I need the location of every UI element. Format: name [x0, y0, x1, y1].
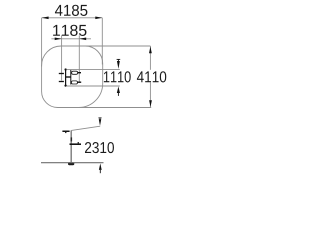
1110 top outside arrow [117, 59, 121, 69]
side view: handlebar grip [62, 131, 69, 133]
extension line right of 1185 [78, 35, 80, 83]
pole bolt detail [71, 137, 73, 141]
2310 top outside arrow [98, 118, 101, 126]
arrow left 1185 (outside, pointing right) [55, 38, 62, 41]
seat bracket vertical [70, 70, 72, 85]
label 4110 [137, 71, 166, 82]
footrest oval top [72, 71, 78, 74]
crossbar [66, 76, 71, 78]
arrow left 4185 [42, 17, 49, 20]
equipment plan view: handlebar post [59, 70, 81, 86]
arrow right 1185 (outside, pointing left) [79, 38, 86, 41]
sloping top line to dimension arrow [71, 126, 100, 130]
4110 bottom arrow [149, 100, 152, 107]
seat beam top [78, 72, 82, 74]
label 4185 [55, 5, 87, 16]
handlebar end dot top [64, 68, 66, 70]
dimension 4185 line [42, 18, 103, 67]
seat beam bottom [77, 81, 81, 83]
label 1110 [104, 71, 131, 82]
4110 dimension line (broken by text) [149, 46, 151, 70]
extension line right of 4185 [101, 18, 103, 65]
seat bar (side view) [70, 143, 82, 145]
handlebar end dot bottom [64, 84, 66, 86]
ground line [41, 162, 104, 164]
dimension 1185 line with outside arrows [51, 35, 91, 83]
4110 top arrow [149, 47, 152, 54]
extension line left of 1185 [61, 35, 63, 80]
base foot [68, 162, 74, 165]
label 2310 [85, 142, 114, 153]
dimension 1110 extension lines [67, 69, 120, 86]
footrest oval bottom [71, 81, 77, 84]
grip nub [65, 132, 66, 133]
2310 bottom outside arrow [99, 163, 102, 173]
handle grip upper [59, 73, 64, 75]
side view: main pole [70, 130, 72, 162]
label 1185 [53, 25, 86, 36]
extension line left of 4185 [41, 18, 43, 67]
dimension 4110 extension lines [79, 46, 151, 108]
seat nub [78, 142, 79, 143]
safety zone rounded square (plan view) [42, 46, 103, 108]
arrow right 4185 [95, 17, 102, 20]
1110 bottom outside arrow [117, 86, 120, 96]
handle grip lower [59, 81, 64, 83]
